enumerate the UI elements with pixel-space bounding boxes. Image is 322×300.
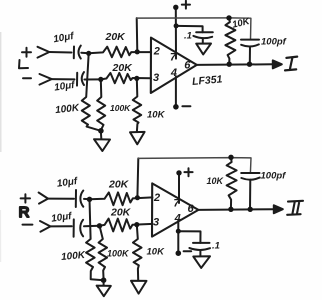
svg-text:20K: 20K: [108, 179, 130, 191]
svg-text:10K: 10K: [207, 176, 225, 186]
svg-text:6: 6: [188, 203, 195, 215]
svg-text:100K: 100K: [110, 103, 131, 113]
svg-text:LF351: LF351: [192, 73, 223, 88]
svg-text:20K: 20K: [105, 31, 127, 43]
svg-text:R: R: [19, 204, 30, 221]
svg-text:6: 6: [184, 60, 191, 72]
svg-text:10K: 10K: [147, 110, 166, 121]
svg-text:3: 3: [153, 216, 159, 228]
svg-text:20K: 20K: [112, 62, 134, 74]
svg-text:100K: 100K: [61, 250, 87, 263]
svg-text:.1: .1: [212, 241, 220, 252]
svg-text:7: 7: [173, 198, 180, 210]
svg-text:100K: 100K: [107, 249, 130, 259]
svg-text:100pf: 100pf: [261, 37, 287, 48]
svg-text:20K: 20K: [110, 207, 132, 219]
svg-text:.1: .1: [184, 31, 192, 42]
svg-text:10K: 10K: [147, 247, 166, 258]
svg-text:100K: 100K: [55, 103, 81, 117]
svg-text:2: 2: [153, 192, 160, 204]
svg-text:100pf: 100pf: [261, 171, 287, 182]
svg-text:10μf: 10μf: [56, 176, 79, 190]
svg-text:7: 7: [170, 51, 177, 63]
svg-text:10μf: 10μf: [53, 80, 76, 94]
svg-text:3: 3: [153, 72, 159, 84]
svg-text:4: 4: [170, 67, 177, 79]
svg-text:10μf: 10μf: [52, 31, 76, 46]
svg-text:10μf: 10μf: [50, 211, 73, 225]
svg-text:4: 4: [174, 212, 181, 224]
svg-text:2: 2: [153, 46, 160, 58]
